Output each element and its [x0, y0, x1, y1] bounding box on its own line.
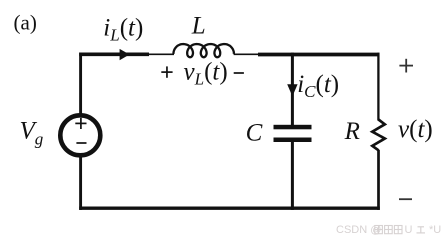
wire top-left vertical — [79, 53, 82, 115]
svg-text:vL(t): vL(t) — [184, 59, 228, 89]
svg-text:iC(t): iC(t) — [297, 71, 339, 101]
minus sign right — [399, 198, 412, 200]
watermark glyph block 1 — [375, 226, 383, 234]
current arrow iC — [287, 84, 297, 96]
plus sign inside source — [75, 122, 86, 124]
bottom wire — [79, 206, 380, 209]
left vertical wire lower — [79, 156, 82, 210]
minus sign inside source — [76, 142, 86, 144]
capacitor C bottom plate — [274, 138, 312, 143]
watermark glyph block 3 — [394, 226, 402, 234]
plus sign vL — [161, 71, 172, 73]
svg-text:R: R — [344, 118, 360, 145]
wire thin before coil — [148, 53, 174, 55]
svg-text:L: L — [191, 12, 206, 39]
wire top-right horizontal (bold) — [258, 53, 380, 57]
svg-text:U: U — [405, 224, 413, 236]
svg-text:C: C — [246, 119, 263, 146]
svg-text:(a): (a) — [14, 11, 37, 35]
wire top-left horizontal (bold) — [79, 52, 149, 56]
wire thin after coil — [234, 53, 259, 55]
watermark CSDN — [336, 224, 441, 236]
svg-text:Vg: Vg — [20, 118, 44, 149]
inductor L coil — [174, 44, 234, 57]
svg-text:*U: *U — [429, 224, 441, 236]
capacitor C top plate — [274, 125, 312, 130]
right vertical wire lower — [377, 150, 380, 210]
svg-text:iL(t): iL(t) — [103, 15, 143, 45]
plus sign right — [399, 65, 413, 67]
current arrow iL — [120, 49, 130, 60]
resistor R zigzag — [372, 120, 385, 151]
right vertical wire upper — [377, 53, 379, 121]
watermark glyph block 2 — [385, 226, 393, 234]
minus sign vL — [234, 72, 244, 74]
svg-text:v(t): v(t) — [398, 116, 433, 143]
watermark glyph gong — [417, 227, 426, 233]
voltage source Vg circle — [60, 115, 100, 155]
capacitor branch top wire — [291, 53, 294, 125]
capacitor branch bottom wire — [291, 142, 294, 210]
